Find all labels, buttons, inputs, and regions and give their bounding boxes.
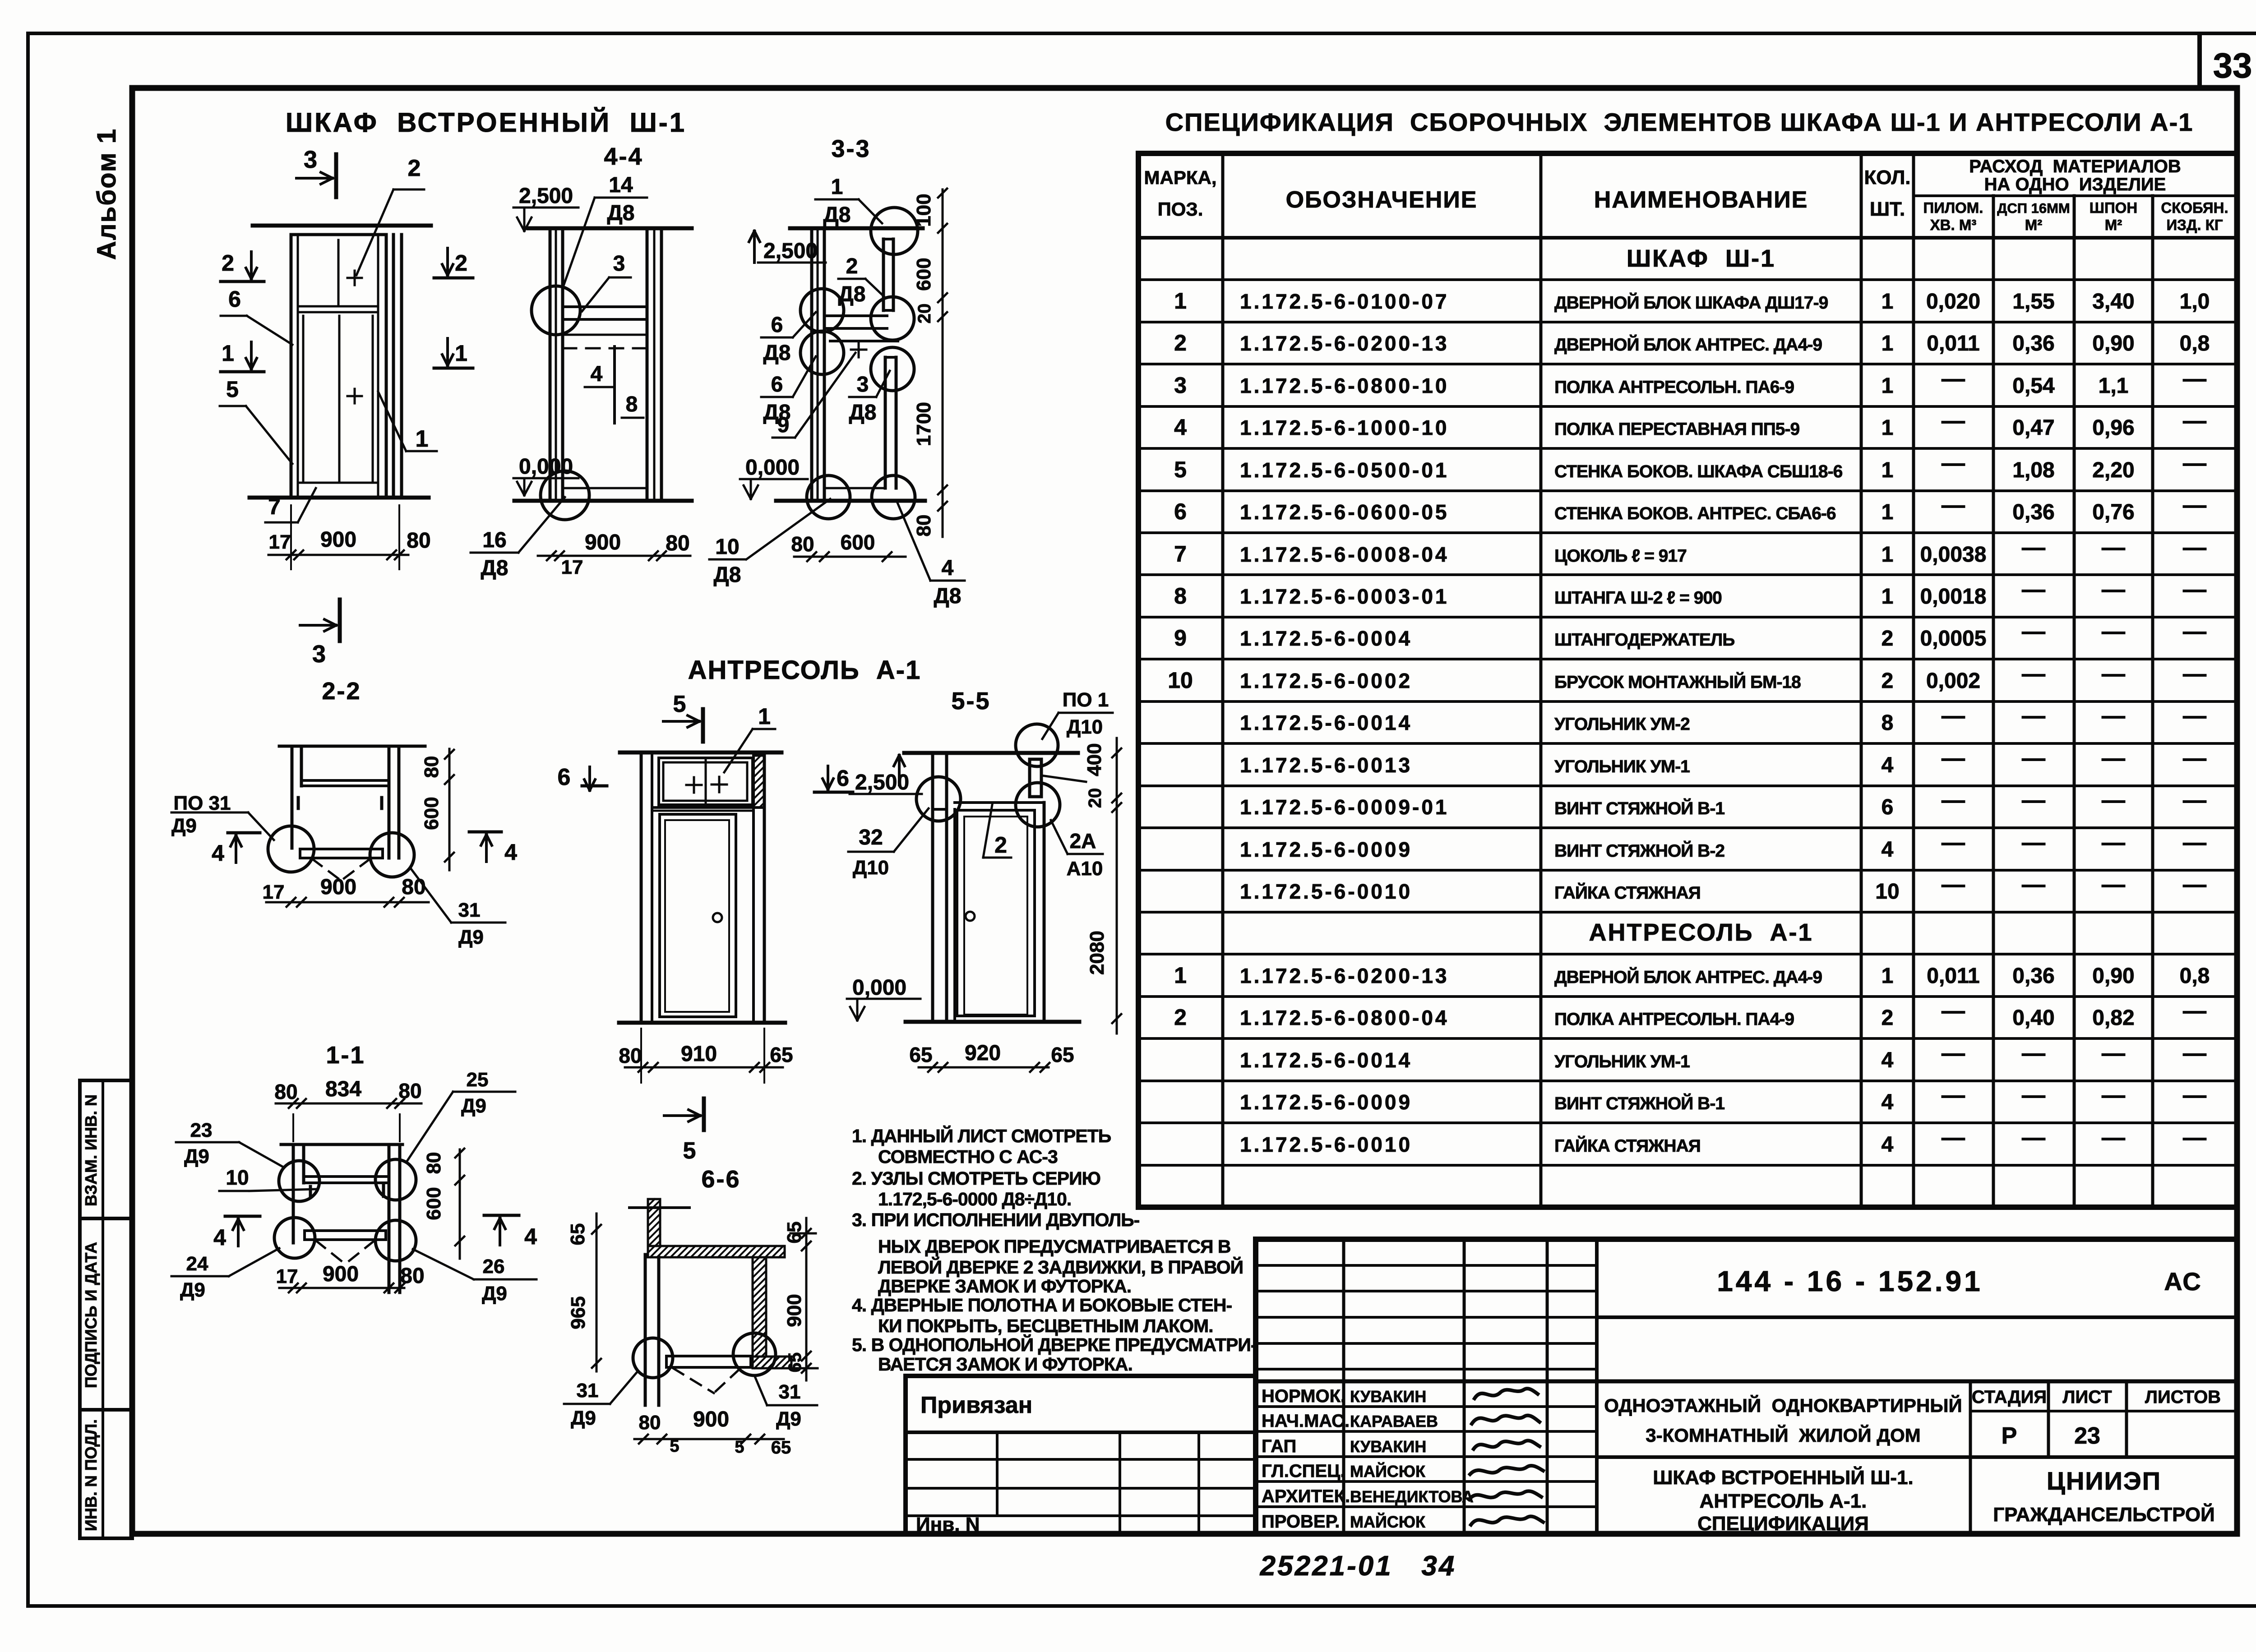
svg-text:—: —: [2183, 745, 2206, 771]
svg-text:СТЕНКА БОКОВ. ШКАФА СБШ18-6: СТЕНКА БОКОВ. ШКАФА СБШ18-6: [1554, 462, 1843, 481]
svg-text:80: 80: [423, 1152, 445, 1174]
svg-text:Д9: Д9: [571, 1407, 596, 1429]
svg-text:965: 965: [567, 1296, 589, 1329]
svg-text:ЛИСТ: ЛИСТ: [2062, 1387, 2112, 1407]
svg-text:65: 65: [771, 1438, 791, 1458]
svg-text:0,0038: 0,0038: [1920, 543, 1987, 567]
svg-text:3-3: 3-3: [831, 135, 870, 162]
svg-text:80: 80: [619, 1044, 642, 1067]
title block lower rows left: [1256, 1405, 1597, 1408]
svg-text:1: 1: [222, 341, 234, 366]
svg-text:ОБОЗНАЧЕНИЕ: ОБОЗНАЧЕНИЕ: [1286, 187, 1478, 213]
svg-text:900: 900: [693, 1407, 729, 1431]
section 4-4 callout circle bottom: [541, 471, 589, 520]
svg-text:23: 23: [2074, 1423, 2100, 1449]
svg-text:—: —: [1942, 450, 1965, 476]
svg-text:—: —: [1942, 872, 1965, 898]
section 3-3 door bar: [884, 357, 887, 488]
svg-text:ШТ.: ШТ.: [1870, 198, 1905, 220]
svg-text:4: 4: [504, 840, 517, 865]
svg-text:—: —: [2022, 703, 2045, 729]
svg-text:—: —: [2022, 830, 2045, 856]
svg-text:1: 1: [455, 341, 467, 366]
section 4-4 floor: [514, 499, 692, 503]
svg-text:А10: А10: [1067, 858, 1103, 880]
svg-text:2,500: 2,500: [763, 239, 818, 263]
svg-text:10: 10: [1168, 668, 1193, 693]
svg-text:0,96: 0,96: [2092, 416, 2134, 440]
section 5-5 right dim chain: [1116, 738, 1118, 1034]
svg-text:ЛЕВОЙ ДВЕРКЕ 2 ЗАДВИЖКИ, В ПРА: ЛЕВОЙ ДВЕРКЕ 2 ЗАДВИЖКИ, В ПРАВОЙ: [878, 1257, 1243, 1278]
section 5-5 level 2500 arrow: [898, 755, 901, 785]
svg-text:7: 7: [1174, 541, 1187, 567]
svg-text:ВИНТ СТЯЖНОЙ В-2: ВИНТ СТЯЖНОЙ В-2: [1554, 840, 1724, 861]
svg-text:2: 2: [408, 155, 421, 181]
section 6-6 bottom hatched foot: [753, 1357, 791, 1368]
title block right verticals: [1969, 1381, 1972, 1534]
svg-text:1.172.5-6-0003-01: 1.172.5-6-0003-01: [1240, 585, 1449, 608]
svg-text:—: —: [1942, 745, 1965, 771]
section 4-4 ceiling: [528, 226, 692, 231]
svg-text:4: 4: [1882, 838, 1894, 862]
svg-text:2: 2: [846, 254, 858, 278]
svg-text:—: —: [2022, 745, 2045, 771]
svg-text:9: 9: [1174, 625, 1187, 651]
section 3-3 right dim chain: [942, 189, 944, 537]
svg-text:17: 17: [276, 1265, 298, 1287]
svg-text:2: 2: [1882, 669, 1894, 693]
svg-text:1: 1: [831, 175, 843, 199]
svg-text:1. ДАННЫЙ ЛИСТ СМОТРЕТЬ: 1. ДАННЫЙ ЛИСТ СМОТРЕТЬ: [852, 1126, 1111, 1146]
svg-text:20: 20: [915, 304, 934, 324]
svg-text:РАСХОД МАТЕРИАЛОВ: РАСХОД МАТЕРИАЛОВ: [1969, 157, 2181, 176]
svg-text:ГАЙКА СТЯЖНАЯ: ГАЙКА СТЯЖНАЯ: [1554, 1135, 1701, 1156]
svg-text:600: 600: [841, 531, 875, 554]
front view antresol divider: [298, 305, 378, 308]
svg-text:5: 5: [683, 1138, 696, 1164]
svg-text:834: 834: [325, 1077, 361, 1101]
svg-text:КУВАКИН: КУВАКИН: [1350, 1387, 1426, 1406]
svg-text:КИ ПОКРЫТЬ, БЕСЦВЕТНЫМ ЛАКОМ.: КИ ПОКРЫТЬ, БЕСЦВЕТНЫМ ЛАКОМ.: [878, 1315, 1213, 1336]
svg-text:1.172.5-6-0800-10: 1.172.5-6-0800-10: [1240, 374, 1449, 397]
section 3-3 antresol bottom: [830, 340, 898, 342]
svg-text:0,0005: 0,0005: [1920, 627, 1987, 651]
svg-text:6: 6: [558, 764, 571, 790]
svg-text:1.172.5-6-0004: 1.172.5-6-0004: [1240, 627, 1412, 650]
svg-text:ШКАФ ВСТРОЕННЫЙ Ш-1: ШКАФ ВСТРОЕННЫЙ Ш-1: [286, 107, 686, 138]
svg-text:ГЛ.СПЕЦ.: ГЛ.СПЕЦ.: [1262, 1461, 1345, 1481]
svg-text:0,000: 0,000: [745, 456, 800, 480]
section 6-6 right dim chain: [805, 1218, 808, 1380]
front view cabinet top: [291, 233, 386, 236]
svg-text:Д8: Д8: [838, 282, 866, 306]
section 5-5 door: [957, 810, 1035, 1016]
svg-text:0,90: 0,90: [2092, 332, 2134, 355]
svg-text:СПЕЦИФИКАЦИЯ СБОРОЧНЫХ ЭЛЕМЕ: СПЕЦИФИКАЦИЯ СБОРОЧНЫХ ЭЛЕМЕНТОВ ШКАФА Ш…: [1165, 108, 2194, 136]
svg-text:144 - 16 - 152.91: 144 - 16 - 152.91: [1717, 1265, 1983, 1297]
svg-text:ИНВ. N ПОДЛ.: ИНВ. N ПОДЛ.: [82, 1419, 100, 1531]
svg-text:ВИНТ СТЯЖНОЙ В-1: ВИНТ СТЯЖНОЙ В-1: [1554, 1093, 1724, 1113]
svg-text:32: 32: [859, 826, 883, 849]
front view lower door lines: [302, 316, 305, 483]
svg-text:ИЗД. КГ: ИЗД. КГ: [2166, 217, 2223, 233]
svg-text:—: —: [2183, 577, 2206, 603]
svg-text:1.172.5-6-0100-07: 1.172.5-6-0100-07: [1240, 290, 1449, 313]
front view marker 1 right: [446, 338, 449, 365]
section 1-1 right dims: [459, 1149, 461, 1259]
svg-text:—: —: [2183, 535, 2206, 561]
svg-text:—: —: [2183, 366, 2206, 392]
section 6-6 door swing dashed: [673, 1368, 714, 1393]
svg-text:ЛИСТОВ: ЛИСТОВ: [2145, 1387, 2221, 1407]
front view wall right: [392, 235, 395, 498]
svg-text:ПО 1: ПО 1: [1063, 689, 1109, 711]
section 5-5 circles: [916, 777, 961, 821]
svg-text:1,55: 1,55: [2012, 290, 2054, 314]
svg-text:1: 1: [1174, 963, 1187, 988]
svg-text:Д8: Д8: [849, 401, 877, 425]
svg-text:1: 1: [1882, 964, 1894, 988]
section 5-5 floor: [906, 1020, 1079, 1024]
svg-text:17: 17: [269, 531, 291, 553]
section 3-3 tsokol: [824, 487, 885, 489]
svg-text:Д10: Д10: [1067, 716, 1103, 738]
svg-text:7: 7: [268, 494, 281, 519]
svg-text:Д9: Д9: [180, 1279, 205, 1301]
svg-text:8: 8: [626, 392, 638, 416]
section 2-2 right verticals: [388, 746, 391, 858]
svg-text:5: 5: [673, 691, 686, 717]
svg-text:4: 4: [213, 1225, 226, 1250]
svg-text:17: 17: [561, 556, 583, 578]
svg-text:23: 23: [190, 1119, 213, 1141]
svg-text:—: —: [2102, 661, 2125, 687]
svg-text:0,011: 0,011: [1927, 964, 1979, 988]
svg-text:2: 2: [1174, 330, 1187, 355]
svg-text:АНТРЕСОЛЬ А-1.: АНТРЕСОЛЬ А-1.: [1700, 1490, 1867, 1512]
svg-text:2: 2: [455, 250, 467, 276]
svg-text:3,40: 3,40: [2092, 290, 2134, 314]
svg-text:31: 31: [577, 1380, 599, 1402]
svg-text:600: 600: [913, 258, 935, 291]
svg-text:ПОЛКА АНТРЕСОЛЬН. ПА4-9: ПОЛКА АНТРЕСОЛЬН. ПА4-9: [1554, 1010, 1794, 1029]
svg-text:10: 10: [715, 535, 739, 559]
svg-text:АНТРЕСОЛЬ А-1: АНТРЕСОЛЬ А-1: [688, 655, 921, 685]
svg-text:5-5: 5-5: [951, 688, 990, 715]
section 2-2 bottom bar: [300, 849, 383, 858]
section 6-6 top vertical hatched bar: [648, 1199, 660, 1246]
svg-text:ПО 31: ПО 31: [173, 792, 231, 814]
left stamp boxes: [80, 1080, 132, 1538]
svg-text:Д8: Д8: [714, 563, 741, 587]
svg-text:ГРАЖДАНСЕЛЬСТРОЙ: ГРАЖДАНСЕЛЬСТРОЙ: [1993, 1503, 2215, 1526]
svg-text:1: 1: [1882, 374, 1894, 398]
svg-text:600: 600: [423, 1187, 445, 1220]
svg-text:5. В ОДНОПОЛЬНОЙ ДВЕРКЕ ПРЕДУС: 5. В ОДНОПОЛЬНОЙ ДВЕРКЕ ПРЕДУСМАТРИ-: [852, 1334, 1257, 1355]
svg-text:ГАЙКА СТЯЖНАЯ: ГАЙКА СТЯЖНАЯ: [1554, 882, 1701, 903]
title block frame: [1256, 1239, 2237, 1534]
svg-text:2080: 2080: [1086, 931, 1108, 975]
svg-text:—: —: [2183, 1082, 2206, 1108]
svg-text:3-КОМНАТНЫЙ ЖИЛОЙ ДОМ: 3-КОМНАТНЫЙ ЖИЛОЙ ДОМ: [1646, 1424, 1921, 1446]
section 3-3 antresol door bar: [882, 239, 885, 310]
svg-text:КАРАВАЕВ: КАРАВАЕВ: [1350, 1412, 1438, 1431]
svg-text:АНТРЕСОЛЬ А-1: АНТРЕСОЛЬ А-1: [1589, 919, 1813, 946]
svg-text:6: 6: [228, 286, 241, 312]
svg-text:4: 4: [1882, 753, 1894, 777]
svg-text:—: —: [2102, 703, 2125, 729]
svg-text:1: 1: [1882, 416, 1894, 440]
svg-text:1: 1: [1882, 458, 1894, 482]
svg-text:—: —: [2183, 450, 2206, 476]
svg-text:Д9: Д9: [482, 1283, 507, 1305]
svg-text:М²: М²: [2025, 217, 2042, 233]
section 5-5 ceiling: [904, 751, 1078, 755]
svg-text:1: 1: [758, 704, 771, 729]
svg-text:—: —: [1942, 1082, 1965, 1108]
svg-text:900: 900: [320, 528, 356, 552]
svg-text:0,36: 0,36: [2012, 332, 2054, 355]
section 1-1 circles: [279, 1161, 319, 1201]
svg-text:АС: АС: [2164, 1267, 2202, 1296]
svg-text:2: 2: [222, 250, 234, 276]
svg-text:1.172.5-6-1000-10: 1.172.5-6-1000-10: [1240, 416, 1449, 439]
svg-text:80: 80: [421, 756, 443, 778]
svg-text:Д8: Д8: [823, 203, 851, 227]
svg-text:0,36: 0,36: [2012, 964, 2054, 988]
svg-text:—: —: [1942, 408, 1965, 434]
svg-text:—: —: [2022, 618, 2045, 645]
svg-text:СТАДИЯ: СТАДИЯ: [1972, 1387, 2047, 1407]
svg-text:0,90: 0,90: [2092, 964, 2134, 988]
front view ceiling line: [253, 224, 431, 228]
svg-text:—: —: [2102, 830, 2125, 856]
front view cabinet left side: [290, 235, 293, 498]
front view floor line: [250, 496, 429, 500]
svg-text:МАЙСЮК: МАЙСЮК: [1350, 1462, 1426, 1481]
svg-text:1.172.5-6-0009: 1.172.5-6-0009: [1240, 838, 1412, 861]
section 6-6 top reference line: [629, 1206, 689, 1209]
svg-text:СТЕНКА БОКОВ. АНТРЕС. СБА6-6: СТЕНКА БОКОВ. АНТРЕС. СБА6-6: [1554, 504, 1836, 523]
svg-text:2,500: 2,500: [519, 184, 573, 208]
svg-text:65: 65: [770, 1043, 793, 1066]
svg-text:УГОЛЬНИК УМ-1: УГОЛЬНИК УМ-1: [1554, 757, 1690, 776]
svg-text:—: —: [1942, 366, 1965, 392]
svg-text:3. ПРИ ИСПОЛНЕНИИ ДВУПОЛЬ-: 3. ПРИ ИСПОЛНЕНИИ ДВУПОЛЬ-: [852, 1209, 1140, 1230]
svg-text:—: —: [1942, 998, 1965, 1024]
svg-text:Д8: Д8: [607, 201, 635, 225]
view A-1 antresol cross marks: [686, 784, 702, 786]
svg-text:10: 10: [226, 1166, 249, 1189]
section 2-2 door swing dashed: [312, 859, 341, 881]
svg-text:4: 4: [1882, 1133, 1894, 1157]
svg-text:2: 2: [994, 832, 1007, 858]
svg-text:2-2: 2-2: [322, 678, 361, 705]
svg-text:1: 1: [416, 426, 429, 452]
section 6-6 right vertical hatched bar: [753, 1257, 766, 1357]
svg-text:ХВ. М³: ХВ. М³: [1930, 217, 1977, 233]
view A-1 antresol box: [659, 758, 753, 805]
svg-text:0,002: 0,002: [1926, 669, 1980, 693]
section 5-5 lintel: [955, 801, 1044, 804]
svg-text:0,0018: 0,0018: [1920, 585, 1987, 609]
svg-text:0,47: 0,47: [2012, 416, 2054, 440]
svg-text:ДВЕРНОЙ БЛОК ШКАФА ДШ17-9: ДВЕРНОЙ БЛОК ШКАФА ДШ17-9: [1554, 292, 1828, 313]
section 1-1 marker 4 left: [225, 1215, 260, 1218]
section 4-4 tsokol: [563, 487, 647, 489]
svg-text:—: —: [1942, 830, 1965, 856]
svg-text:910: 910: [681, 1042, 717, 1066]
svg-text:80: 80: [398, 1079, 421, 1103]
section 1-1 bottom bar: [305, 1231, 386, 1240]
front view door cross mark: [347, 395, 362, 397]
svg-text:—: —: [2183, 408, 2206, 434]
svg-text:ПРОВЕР.: ПРОВЕР.: [1262, 1512, 1340, 1532]
svg-text:6: 6: [771, 313, 783, 337]
svg-text:ШКАФ Ш-1: ШКАФ Ш-1: [1627, 245, 1775, 272]
svg-text:65: 65: [909, 1043, 932, 1066]
svg-text:8: 8: [1882, 711, 1894, 735]
svg-text:1: 1: [1174, 288, 1187, 314]
title block verticals: [1342, 1239, 1345, 1534]
svg-text:5: 5: [1174, 457, 1187, 482]
svg-text:1.172.5-6-0014: 1.172.5-6-0014: [1240, 1048, 1412, 1072]
svg-text:600: 600: [421, 797, 443, 830]
section 1-1 corner ticks: [309, 1186, 312, 1197]
svg-text:3: 3: [304, 146, 317, 173]
svg-text:—: —: [2183, 998, 2206, 1024]
svg-text:1.172.5-6-0014: 1.172.5-6-0014: [1240, 711, 1412, 734]
section 3-3 antresol shelf: [824, 314, 887, 317]
svg-text:1: 1: [1882, 332, 1894, 355]
svg-text:4: 4: [212, 840, 224, 866]
svg-text:КУВАКИН: КУВАКИН: [1350, 1437, 1426, 1456]
section 4-4 left wall: [549, 230, 552, 498]
svg-text:80: 80: [791, 532, 814, 556]
svg-text:ВИНТ СТЯЖНОЙ В-1: ВИНТ СТЯЖНОЙ В-1: [1554, 798, 1724, 818]
svg-text:1.172.5-6-0200-13: 1.172.5-6-0200-13: [1240, 964, 1449, 988]
svg-text:1.172,5-6-0000 Д8÷Д10.: 1.172,5-6-0000 Д8÷Д10.: [878, 1189, 1071, 1209]
svg-text:СКОБЯН.: СКОБЯН.: [2161, 199, 2228, 216]
svg-text:ЦНИИЭП: ЦНИИЭП: [2047, 1467, 2161, 1495]
svg-text:—: —: [1942, 703, 1965, 729]
svg-text:СОВМЕСТНО С АС-3: СОВМЕСТНО С АС-3: [878, 1146, 1058, 1167]
view A-1 ceiling: [620, 751, 781, 755]
front view cabinet right side: [377, 235, 379, 498]
svg-text:24: 24: [186, 1253, 208, 1275]
svg-text:0,8: 0,8: [2180, 332, 2210, 355]
svg-text:0,76: 0,76: [2092, 500, 2134, 524]
section 2-2 top line: [279, 745, 425, 748]
privyazan block: [906, 1376, 1256, 1534]
svg-text:80: 80: [274, 1080, 297, 1103]
svg-text:4: 4: [1882, 1048, 1894, 1072]
section 6-6 left dim chain: [596, 1214, 598, 1371]
svg-text:НАИМЕНОВАНИЕ: НАИМЕНОВАНИЕ: [1594, 187, 1808, 213]
section 1-1 left verticals: [292, 1145, 295, 1243]
section 3-3 level 2500 arrow: [753, 231, 756, 263]
section 6-6 left wall: [644, 1255, 647, 1405]
svg-text:Д9: Д9: [171, 815, 197, 837]
svg-text:4-4: 4-4: [604, 143, 643, 170]
section 2-2 circles: [268, 826, 314, 872]
svg-text:ПИЛОМ.: ПИЛОМ.: [1923, 199, 1983, 216]
svg-text:2: 2: [1882, 627, 1894, 651]
svg-text:—: —: [2183, 618, 2206, 645]
svg-text:—: —: [2022, 535, 2045, 561]
section 1-1 marker 4 right: [484, 1214, 519, 1217]
svg-text:ВАЕТСЯ ЗАМОК И ФУТОРКА.: ВАЕТСЯ ЗАМОК И ФУТОРКА.: [878, 1354, 1133, 1375]
svg-text:1.172.5-6-0002: 1.172.5-6-0002: [1240, 669, 1412, 692]
svg-text:—: —: [2183, 661, 2206, 687]
svg-text:0,82: 0,82: [2092, 1006, 2134, 1030]
view A-1 hatch strip: [754, 756, 764, 808]
section 3-3 plus mark: [851, 349, 866, 351]
svg-text:0,40: 0,40: [2012, 1006, 2054, 1030]
svg-text:25: 25: [467, 1069, 489, 1091]
svg-text:—: —: [1942, 492, 1965, 518]
section 3-3 left wall: [810, 230, 814, 498]
svg-text:17: 17: [263, 881, 285, 903]
svg-text:80: 80: [402, 875, 425, 899]
svg-text:2: 2: [1882, 1006, 1894, 1030]
svg-text:1-1: 1-1: [326, 1042, 365, 1069]
svg-text:1.172.5-6-0009-01: 1.172.5-6-0009-01: [1240, 795, 1449, 819]
svg-text:4. ДВЕРНЫЕ ПОЛОТНА И БОКОВЫЕ С: 4. ДВЕРНЫЕ ПОЛОТНА И БОКОВЫЕ СТЕН-: [852, 1295, 1232, 1315]
svg-text:Д8: Д8: [481, 556, 509, 580]
section 5-5 left wall bars: [931, 753, 934, 1022]
svg-text:1: 1: [1882, 543, 1894, 567]
svg-text:26: 26: [483, 1255, 505, 1278]
section 5-5 bar leader: [1041, 775, 1086, 782]
svg-text:ОДНОЭТАЖНЫЙ ОДНОКВАРТИРНЫЙ: ОДНОЭТАЖНЫЙ ОДНОКВАРТИРНЫЙ: [1604, 1394, 1962, 1416]
svg-text:—: —: [2183, 1125, 2206, 1151]
svg-text:1: 1: [1882, 585, 1894, 609]
svg-text:6: 6: [771, 373, 783, 397]
svg-text:5: 5: [226, 377, 239, 402]
svg-text:6: 6: [837, 766, 849, 791]
svg-text:900: 900: [323, 1262, 359, 1286]
section 5-5 marker 6 left: [827, 766, 829, 789]
svg-text:2А: 2А: [1070, 829, 1096, 853]
section 2-2 shelf: [301, 779, 389, 782]
svg-text:—: —: [2022, 1125, 2045, 1151]
svg-text:ГАП: ГАП: [1262, 1436, 1296, 1456]
svg-text:—: —: [2022, 1082, 2045, 1108]
svg-text:ШПОН: ШПОН: [2090, 199, 2137, 216]
section 3-3 ceiling: [790, 226, 923, 231]
svg-text:СПЕЦИФИКАЦИЯ: СПЕЦИФИКАЦИЯ: [1697, 1513, 1869, 1535]
front view antresol cross mark: [347, 277, 362, 279]
section 3-3 circles: [871, 208, 918, 254]
svg-text:33: 33: [2213, 46, 2252, 85]
svg-text:0,020: 0,020: [1926, 290, 1980, 314]
svg-text:—: —: [2022, 577, 2045, 603]
svg-text:Д8: Д8: [934, 584, 962, 608]
svg-text:4: 4: [1174, 415, 1187, 440]
svg-text:МАРКА,: МАРКА,: [1144, 167, 1217, 188]
svg-text:0,000: 0,000: [519, 455, 573, 479]
svg-text:31: 31: [779, 1381, 801, 1403]
svg-text:1: 1: [1882, 290, 1894, 314]
view A-1 door: [660, 814, 736, 1017]
svg-text:МАЙСЮК: МАЙСЮК: [1350, 1512, 1426, 1531]
svg-text:ПОЛКА ПЕРЕСТАВНАЯ ПП5-9: ПОЛКА ПЕРЕСТАВНАЯ ПП5-9: [1554, 420, 1799, 439]
svg-text:ПОЗ.: ПОЗ.: [1158, 198, 1203, 220]
svg-text:—: —: [2102, 1040, 2125, 1066]
svg-text:900: 900: [320, 875, 356, 899]
svg-text:ДВЕРНОЙ БЛОК АНТРЕС. ДА4-9: ДВЕРНОЙ БЛОК АНТРЕС. ДА4-9: [1554, 334, 1822, 355]
